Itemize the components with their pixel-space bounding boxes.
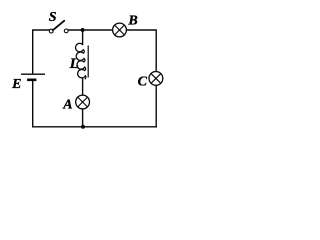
svg-text:C: C <box>138 74 148 89</box>
svg-text:B: B <box>127 14 137 29</box>
wire top-left: corner to switch left terminal <box>33 30 50 74</box>
inductor L coil <box>75 43 85 79</box>
wire middle branch upper: junction to inductor <box>82 30 84 45</box>
svg-text:E: E <box>11 77 21 92</box>
wire middle branch mid: inductor to lamp A <box>82 79 84 95</box>
switch S <box>49 21 68 33</box>
wire bottom <box>33 126 157 128</box>
wire left-lower: battery to bottom-left corner <box>32 81 34 127</box>
wire middle branch lower: lamp A to bottom junction <box>82 109 84 127</box>
wire right-lower: lamp C to bottom-right corner <box>155 86 157 127</box>
node junction top (middle branch / top wire) <box>81 28 85 32</box>
wire top-mid: switch right terminal to lamp B <box>68 29 112 31</box>
svg-text:A: A <box>62 97 72 112</box>
node junction bottom (middle branch / bottom wire) <box>81 125 85 129</box>
svg-text:L: L <box>69 56 79 72</box>
battery E <box>21 74 45 80</box>
lamp B <box>113 23 127 37</box>
inductor L core line <box>87 46 89 78</box>
lamp C <box>149 72 163 86</box>
wire top-right: lamp B to right side <box>127 30 157 71</box>
lamp A <box>76 95 90 109</box>
svg-text:S: S <box>49 10 57 25</box>
